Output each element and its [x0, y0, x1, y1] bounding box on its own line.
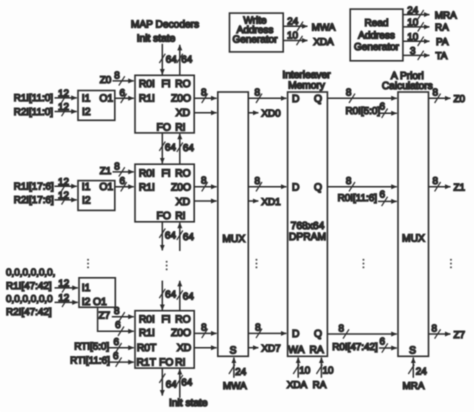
wire FO of MAP 0 down into FI of MAP 1	[161, 133, 163, 164]
bus slash 6	[382, 343, 388, 352]
wire tap XD0 out of MUX	[248, 112, 258, 114]
svg-text:RA: RA	[313, 380, 327, 391]
bus slash 64 on FI of MAP 7	[159, 289, 165, 298]
wire DPRAM Q to read MUX (row 7)	[327, 333, 396, 335]
svg-text:R0I: R0I	[139, 79, 155, 90]
wire XD of MAP 0 to MUX	[194, 112, 216, 114]
bus slash 8	[343, 329, 349, 338]
svg-text:Calculators: Calculators	[382, 81, 433, 92]
svg-text:FI: FI	[161, 79, 170, 90]
svg-text:0,0,0,0,0,0,: 0,0,0,0,0,0,	[6, 268, 55, 279]
map-decoder U0 MAP decoder block	[135, 75, 194, 133]
svg-text:RO: RO	[175, 314, 190, 325]
wire MRA output of read address generator	[403, 14, 430, 16]
block interleaver input unit 0 (I1 I2 O1)	[78, 91, 115, 121]
wire MWA select into S	[233, 358, 235, 378]
bus slash 64 on FO of MAP 1	[159, 229, 165, 238]
bus slash 12	[62, 195, 68, 204]
svg-text:Init state: Init state	[137, 34, 176, 45]
svg-text:MRA: MRA	[403, 381, 425, 392]
ellipsis dots state metric column	[166, 261, 168, 270]
wire read MUX output Z7	[429, 333, 451, 335]
svg-text:24: 24	[416, 366, 427, 377]
bus slash 8	[202, 329, 208, 338]
svg-text:MAP Decoders: MAP Decoders	[131, 20, 199, 31]
bus slash 8	[349, 94, 355, 103]
wire padded R2I[47:42] into I2	[55, 301, 78, 303]
wire XD of MAP 1 to MUX	[194, 200, 216, 202]
svg-text:D: D	[292, 94, 299, 105]
wire RI of MAP 7 up (init state in)	[179, 369, 181, 398]
wire R2I[17:6] into I2	[55, 199, 77, 201]
svg-text:24: 24	[235, 367, 246, 378]
bus slash 64 on RO output	[177, 54, 183, 63]
svg-text:10: 10	[407, 18, 418, 29]
svg-text:RO: RO	[175, 79, 190, 90]
svg-text:R1I[47:42]: R1I[47:42]	[6, 281, 52, 292]
svg-text:12: 12	[58, 191, 69, 202]
svg-text:Z0O: Z0O	[171, 94, 191, 105]
svg-text:FI: FI	[161, 168, 170, 179]
svg-text:64: 64	[183, 232, 194, 243]
wire MUX to DPRAM D (row 1)	[248, 186, 286, 188]
bus slash 3 on TA	[418, 51, 424, 60]
block interleaver input unit 7 (I1 I2O1)	[79, 278, 115, 308]
wire FI into MAP 7 from hidden MAP	[161, 281, 163, 311]
svg-text:MUX: MUX	[222, 234, 245, 245]
svg-text:8: 8	[255, 87, 261, 98]
svg-text:R2I[11:0]: R2I[11:0]	[14, 107, 54, 118]
bus slash 6	[382, 197, 388, 206]
svg-text:FO: FO	[159, 358, 173, 369]
bus slash 64 on RI	[177, 143, 183, 152]
bus slash 64 on RI of MAP 1	[177, 231, 183, 240]
bus slash 10 on PA	[418, 37, 424, 46]
svg-text:Z7: Z7	[99, 310, 111, 321]
svg-text:8: 8	[433, 176, 439, 187]
bus slash 12	[62, 298, 68, 307]
bus slash 8	[119, 312, 125, 321]
bus slash 8	[435, 329, 441, 338]
svg-text:XD1: XD1	[261, 197, 281, 208]
svg-text:R0I: R0I	[139, 168, 155, 179]
svg-text:Q: Q	[314, 94, 322, 105]
bus slash 8	[119, 167, 125, 176]
wire MUX to DPRAM D (row 7)	[248, 332, 286, 334]
wire RO of MAP 1 up into RI of MAP 0	[179, 134, 181, 164]
svg-text:Generator: Generator	[232, 35, 278, 46]
bus slash 8	[256, 94, 262, 103]
svg-text:8: 8	[114, 70, 120, 81]
svg-text:Init state: Init state	[169, 398, 208, 409]
bus slash 24 on MRA select	[408, 365, 414, 374]
wire read MUX output Z0	[429, 97, 451, 99]
wire Z1 into R0I	[113, 171, 134, 173]
svg-text:WA: WA	[288, 345, 304, 356]
svg-text:XDA: XDA	[287, 380, 308, 391]
svg-text:Q: Q	[314, 329, 322, 340]
wire RA into RA port	[320, 358, 322, 378]
svg-text:I2: I2	[82, 107, 91, 118]
svg-text:XD0: XD0	[261, 109, 281, 120]
bus slash 10 on XDA write address	[293, 365, 299, 374]
wire O1 to R1I of MAP 1	[115, 186, 134, 188]
svg-text:Memory: Memory	[288, 80, 326, 91]
bus slash 8	[256, 182, 262, 191]
wire FO of MAP 7 down (init state out)	[161, 368, 163, 395]
wire tap XD7 out of MUX	[248, 347, 258, 349]
svg-text:S: S	[230, 346, 237, 357]
svg-text:24: 24	[287, 17, 298, 28]
svg-text:10: 10	[407, 32, 418, 43]
svg-text:R0I[47:42]: R0I[47:42]	[332, 342, 378, 353]
svg-text:8: 8	[255, 323, 261, 334]
svg-text:R1I: R1I	[139, 183, 155, 194]
svg-text:RTI[5:0]: RTI[5:0]	[74, 342, 109, 353]
bus slash 6	[118, 327, 124, 336]
svg-text:R1I[17:6]: R1I[17:6]	[14, 182, 54, 193]
wire read MUX output Z1	[429, 186, 451, 188]
svg-text:R1I: R1I	[139, 94, 155, 105]
svg-text:O1: O1	[99, 182, 113, 193]
wire RO of MAP 0 up (output)	[179, 45, 181, 76]
svg-text:RO: RO	[175, 168, 190, 179]
wire XDA output of write address generator	[283, 40, 307, 42]
wire PA output of read address generator	[403, 40, 430, 42]
bus slash 8	[435, 182, 441, 191]
svg-text:8: 8	[346, 87, 352, 98]
svg-text:FO: FO	[157, 123, 171, 134]
bus slash 64 on FI input	[159, 54, 165, 63]
ellipsis dots read data column	[363, 259, 365, 268]
svg-text:R1I[11:0]: R1I[11:0]	[14, 93, 54, 104]
svg-text:64: 64	[166, 55, 177, 66]
svg-text:I2: I2	[82, 297, 91, 308]
svg-text:O1: O1	[99, 94, 113, 105]
svg-text:8: 8	[114, 161, 120, 172]
svg-text:768x64: 768x64	[291, 221, 325, 232]
svg-text:3: 3	[410, 46, 416, 57]
bus slash 8	[435, 94, 441, 103]
svg-text:Z0: Z0	[100, 75, 112, 86]
svg-text:MWA: MWA	[312, 23, 336, 34]
bus slash 10 on XDA	[297, 36, 303, 45]
block Read Address Generator	[350, 9, 403, 61]
svg-text:10: 10	[299, 365, 310, 376]
mux MUX (write-side)	[218, 92, 249, 356]
svg-text:R2I[17:6]: R2I[17:6]	[14, 195, 54, 206]
wire R1I[11:0] into I1	[55, 97, 77, 99]
svg-text:XDA: XDA	[313, 37, 334, 48]
svg-text:6: 6	[120, 88, 126, 99]
svg-text:8: 8	[432, 323, 438, 334]
svg-text:RA: RA	[309, 345, 323, 356]
svg-text:R2I[47:42]: R2I[47:42]	[6, 307, 52, 318]
svg-text:RI: RI	[175, 358, 185, 369]
bus slash 8	[202, 94, 208, 103]
wire R2I[11:0] into I2	[55, 111, 77, 113]
wire Z7 into R0I of MAP 7	[112, 316, 134, 318]
block Write Address Generator	[230, 13, 284, 52]
svg-text:TA: TA	[435, 51, 447, 62]
svg-text:S: S	[409, 346, 416, 357]
svg-text:R1T: R1T	[136, 358, 156, 369]
bus slash 24 on MWA	[297, 22, 303, 31]
svg-text:64: 64	[181, 378, 192, 389]
bus slash 12	[62, 107, 68, 116]
svg-text:12: 12	[58, 177, 69, 188]
ellipsis dots XD column	[256, 259, 258, 268]
memory 768x64 DPRAM interleaver memory	[288, 92, 328, 356]
svg-text:Z7: Z7	[454, 330, 466, 341]
svg-text:8: 8	[433, 87, 439, 98]
wire R0I[47:42] into read MUX	[379, 347, 397, 349]
svg-text:O1: O1	[93, 297, 107, 308]
wire Z0O of MAP 7 to MUX	[194, 332, 216, 334]
wire RO of MAP 7 up (to hidden MAP)	[179, 281, 181, 311]
bus slash 64 on FO	[159, 142, 165, 151]
svg-text:12: 12	[58, 279, 69, 290]
mux MUX (a priori read-side)	[398, 92, 429, 356]
svg-text:6: 6	[113, 351, 119, 362]
svg-text:RTI[11:6]: RTI[11:6]	[70, 355, 110, 366]
svg-text:R0I[5:0]: R0I[5:0]	[346, 106, 381, 117]
svg-text:0,0,0,0,0,0: 0,0,0,0,0,0	[6, 294, 53, 305]
map-decoder U7 MAP decoder block	[135, 311, 194, 368]
bus slash 64 on RI of MAP 7	[177, 375, 183, 384]
wire MUX to DPRAM D (row 0)	[248, 97, 286, 99]
bus slash 8	[349, 182, 355, 191]
bus slash 8	[202, 182, 208, 191]
svg-text:24: 24	[407, 5, 418, 16]
svg-text:Z1: Z1	[100, 166, 112, 177]
svg-text:D: D	[292, 183, 299, 194]
wire O1 to R1I of MAP 0	[115, 97, 134, 99]
wire RTI[11:6] into R1T	[109, 361, 134, 363]
svg-text:XD: XD	[177, 343, 191, 354]
bus slash 12	[62, 182, 68, 191]
bus slash 10 on RA read address	[316, 365, 322, 374]
block interleaver input unit 1 (I1 I2 O1)	[78, 181, 115, 211]
svg-text:Z1: Z1	[454, 183, 466, 194]
svg-text:8: 8	[255, 176, 261, 187]
svg-text:64: 64	[183, 292, 194, 303]
svg-text:MUX: MUX	[402, 234, 425, 245]
wire init state into FI of MAP 0	[161, 44, 163, 75]
wire R0I[11:6] into read MUX	[378, 200, 397, 202]
svg-text:R0I[11:6]: R0I[11:6]	[338, 193, 378, 204]
bus slash 64 on FO of MAP 7	[159, 374, 165, 383]
svg-text:MRA: MRA	[435, 10, 457, 21]
svg-text:DPRAM: DPRAM	[289, 232, 326, 243]
svg-text:6: 6	[120, 176, 126, 187]
wire MWA output of write address generator	[283, 25, 307, 27]
svg-text:12: 12	[58, 102, 69, 113]
ellipsis dots left column	[87, 259, 89, 268]
wire RI of MAP 1 up from hidden MAP	[179, 223, 181, 251]
wire R1I[17:6] into I1	[55, 185, 77, 187]
bus slash 24 on MWA select	[229, 365, 235, 374]
svg-text:Z0O: Z0O	[171, 183, 191, 194]
bus slash 12	[62, 283, 68, 292]
wire Z0O of MAP 0 to MUX	[194, 97, 216, 99]
bus slash 24 on MRA	[418, 10, 424, 19]
svg-text:Z0: Z0	[454, 94, 466, 105]
wire TA output of read address generator	[403, 54, 430, 56]
svg-text:8: 8	[346, 176, 352, 187]
svg-text:6: 6	[380, 190, 386, 201]
bus slash 10 on RA	[418, 22, 424, 31]
svg-text:12: 12	[58, 293, 69, 304]
svg-text:8: 8	[114, 306, 120, 317]
svg-text:12: 12	[58, 89, 69, 100]
svg-text:R0I: R0I	[139, 314, 155, 325]
svg-text:8: 8	[338, 323, 344, 334]
svg-text:8: 8	[201, 87, 207, 98]
svg-text:RI: RI	[175, 211, 185, 222]
svg-text:10: 10	[323, 365, 334, 376]
ellipsis dots Z output column	[450, 259, 452, 268]
wire DPRAM Q to read MUX (row 0)	[327, 97, 396, 99]
map-decoder U1 MAP decoder block	[135, 164, 194, 222]
svg-text:I2: I2	[82, 196, 91, 207]
svg-text:Z0O: Z0O	[171, 328, 191, 339]
svg-text:64: 64	[181, 55, 192, 66]
wire MRA select into S	[412, 358, 414, 378]
svg-text:6: 6	[380, 101, 386, 112]
svg-text:Generator: Generator	[354, 42, 400, 53]
svg-text:64: 64	[183, 143, 194, 154]
wire padded R1I[47:42] into I1	[55, 287, 78, 289]
svg-text:XD: XD	[176, 197, 190, 208]
svg-text:8: 8	[201, 176, 207, 187]
bus slash 6	[121, 182, 127, 191]
svg-text:FI: FI	[161, 314, 170, 325]
svg-text:I1: I1	[82, 283, 91, 294]
bus slash 12	[62, 93, 68, 102]
wire XDA into WA	[297, 358, 299, 378]
bus slash 8	[256, 329, 262, 338]
bus slash 6	[116, 357, 122, 366]
bus slash 6	[382, 109, 388, 118]
wire XD of MAP 7 to MUX	[194, 347, 216, 349]
svg-text:D: D	[292, 329, 299, 340]
bus slash 6	[116, 343, 122, 352]
svg-text:I1: I1	[82, 94, 91, 105]
bus slash 8	[119, 76, 125, 85]
wire FO of MAP 1 down (to hidden MAP)	[161, 222, 163, 251]
svg-text:6: 6	[114, 337, 120, 348]
svg-text:6: 6	[115, 320, 121, 331]
wire DPRAM Q to read MUX (row 1)	[327, 186, 396, 188]
wire R0I[5:0] into read MUX	[378, 112, 397, 114]
bus slash 64 on RO of MAP 7	[177, 290, 183, 299]
wire RTI[5:0] into R0T	[108, 347, 134, 349]
svg-text:Address: Address	[358, 30, 395, 41]
svg-text:RA: RA	[435, 23, 449, 34]
svg-text:XD7: XD7	[261, 343, 280, 354]
svg-text:Q: Q	[314, 183, 322, 194]
svg-text:6: 6	[380, 336, 386, 347]
svg-text:PA: PA	[436, 37, 449, 48]
wire tap XD1 out of MUX	[248, 200, 258, 202]
svg-text:10: 10	[287, 31, 298, 42]
svg-text:64: 64	[166, 379, 177, 390]
wire RA output of read address generator	[403, 26, 430, 28]
svg-text:RI: RI	[175, 123, 185, 134]
bus slash 6	[121, 94, 127, 103]
svg-text:R1I: R1I	[139, 328, 155, 339]
svg-text:64: 64	[165, 290, 176, 301]
svg-text:64: 64	[165, 142, 176, 153]
svg-text:FO: FO	[157, 211, 171, 222]
svg-text:I1: I1	[82, 182, 91, 193]
svg-text:XD: XD	[176, 108, 190, 119]
svg-text:MWA: MWA	[223, 381, 247, 392]
svg-text:R0T: R0T	[137, 343, 157, 354]
svg-text:Read: Read	[365, 18, 389, 29]
wire Z0 into R0I	[113, 80, 134, 82]
wire O1 of unit 7 routed to R1I of MAP 7	[98, 307, 134, 331]
svg-text:64: 64	[165, 231, 176, 242]
svg-text:Interleaver: Interleaver	[282, 70, 331, 81]
svg-text:8: 8	[201, 323, 207, 334]
wire Z0O of MAP 1 to MUX	[194, 186, 216, 188]
